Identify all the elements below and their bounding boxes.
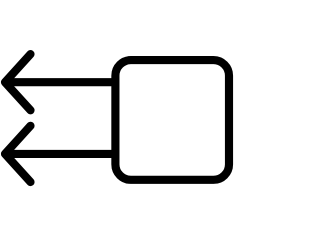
wire: bottom arrow shaft	[5, 150, 119, 158]
wire: top arrow shaft	[5, 78, 119, 86]
rounded square body	[115, 60, 229, 180]
top arrow head (chevron)	[5, 54, 31, 110]
icon: two left-pointing arrows exiting a rounded square	[0, 0, 236, 236]
bottom arrow head (chevron)	[5, 126, 31, 182]
